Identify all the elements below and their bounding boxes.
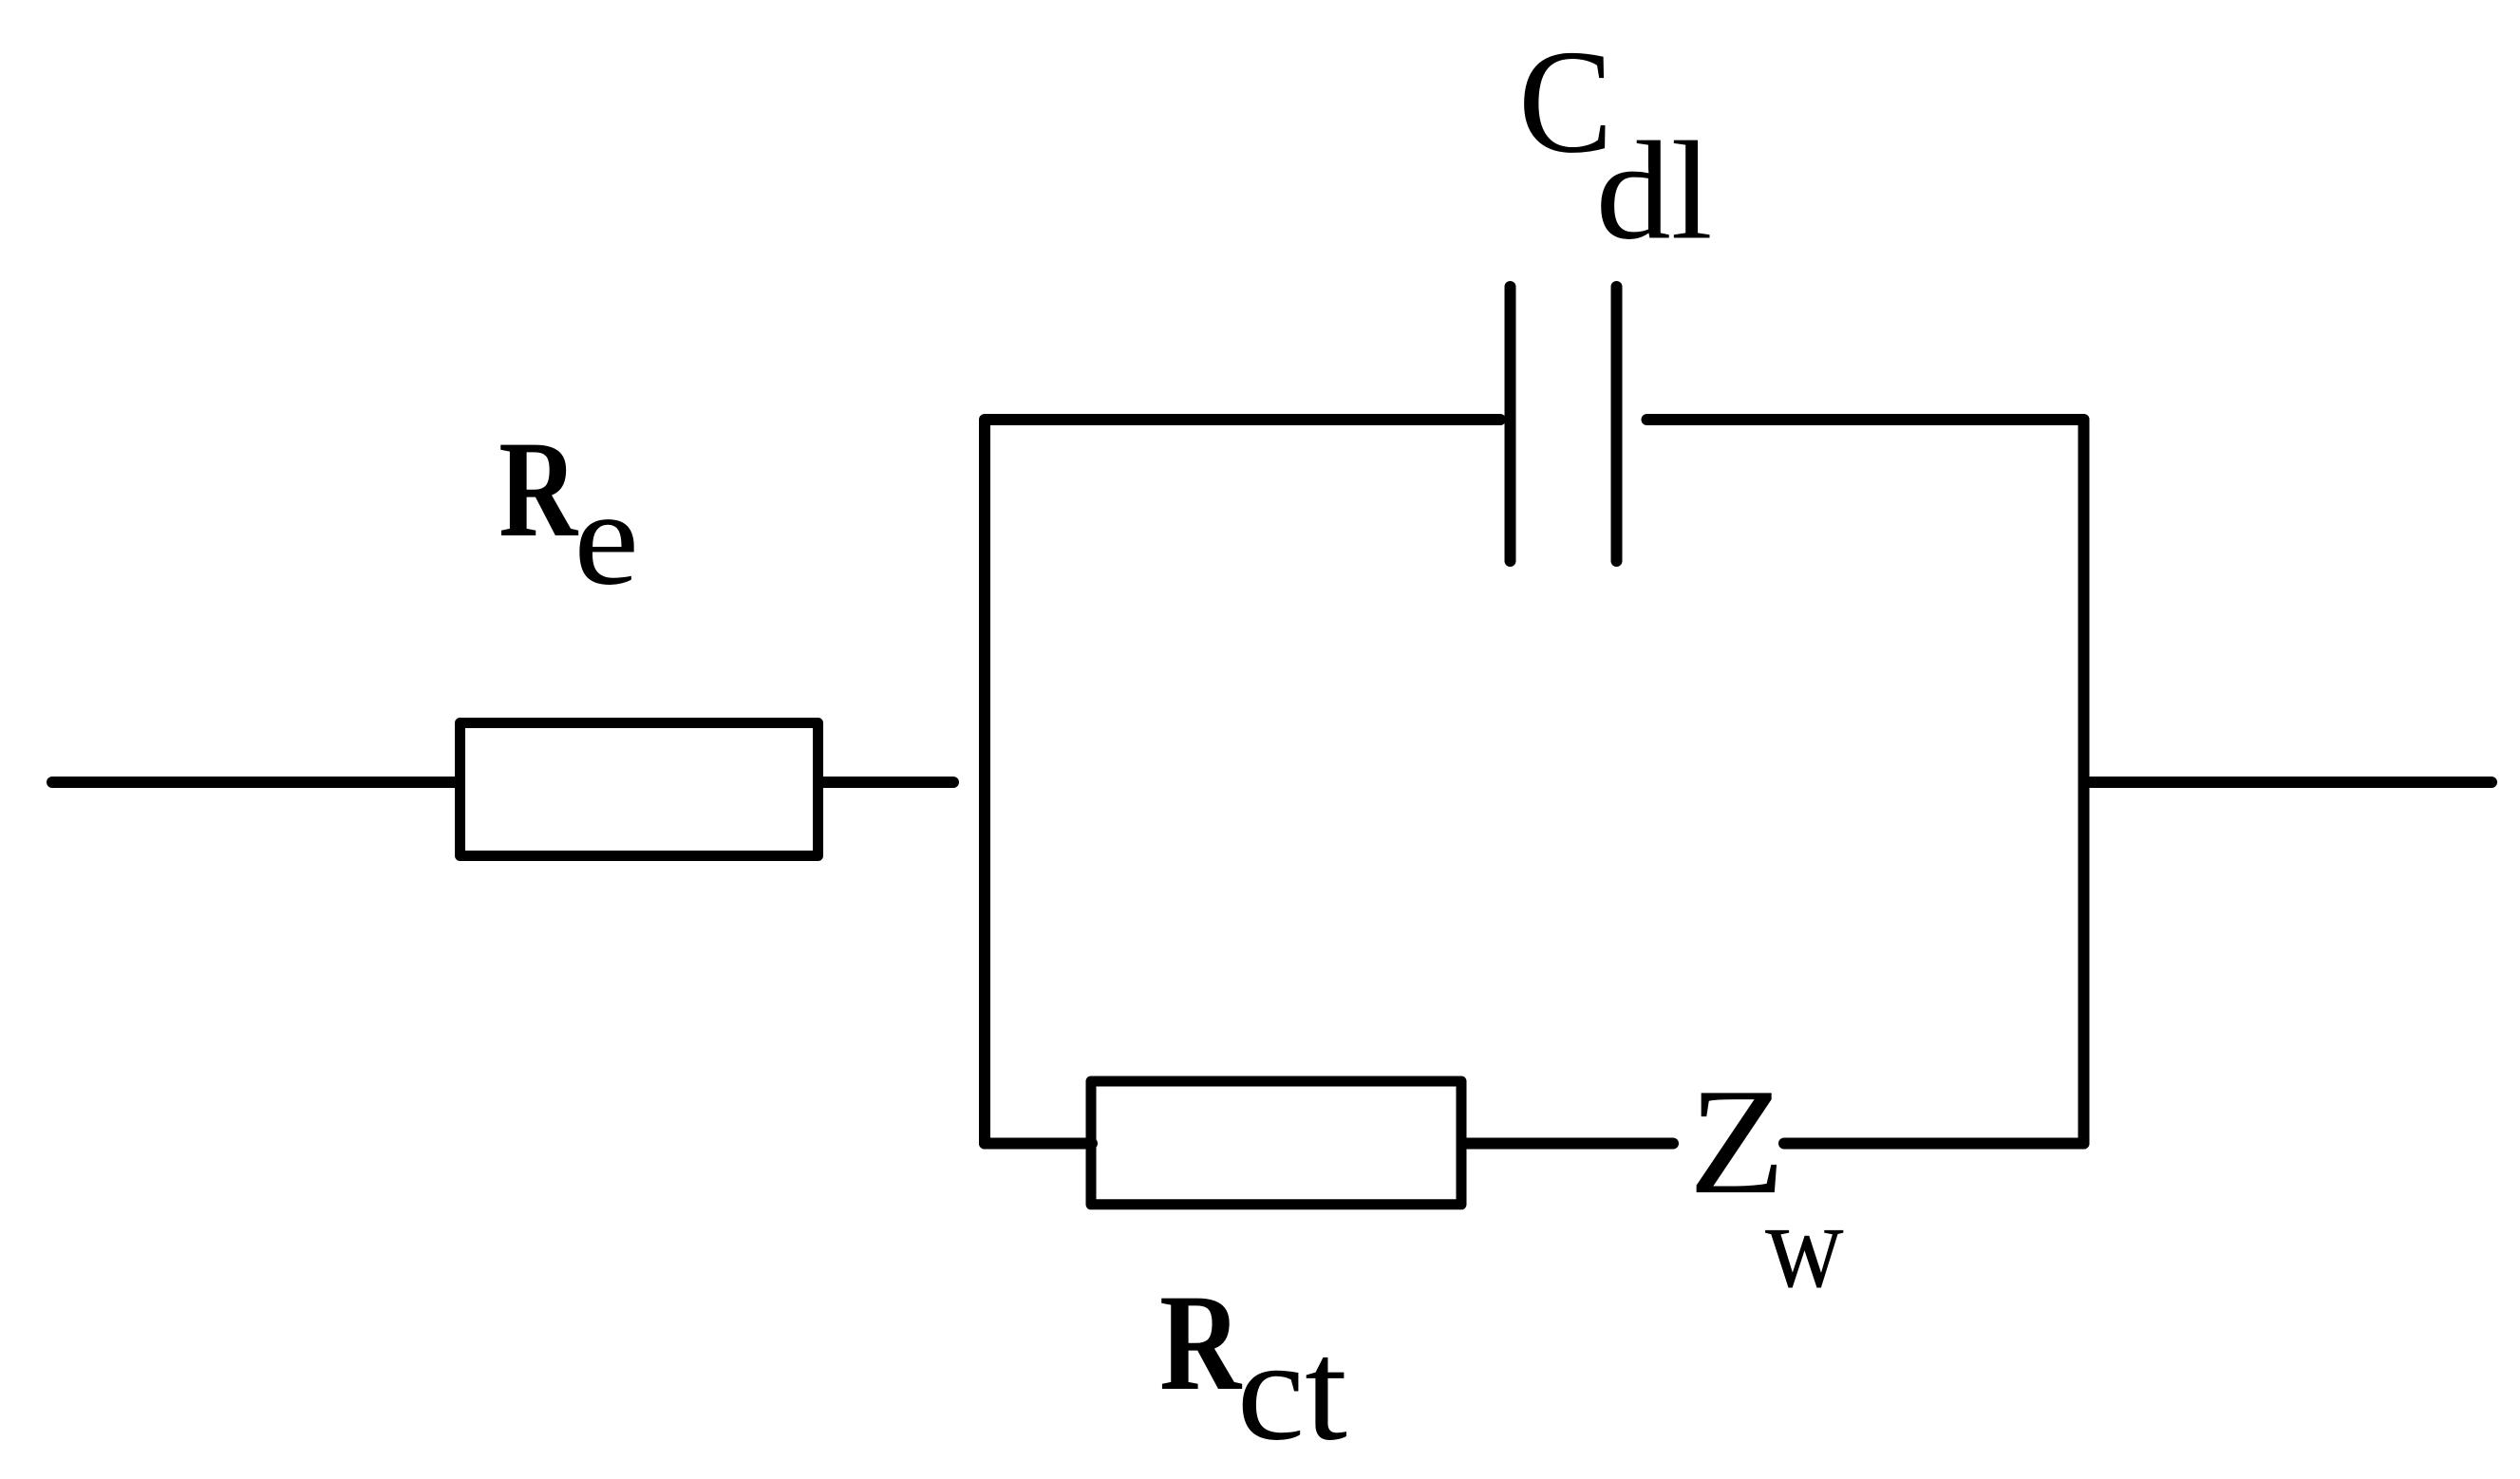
label Re: subscript e bbox=[574, 463, 639, 613]
wire: left input lead bbox=[52, 777, 456, 788]
wire: top branch from capacitor to right riser bbox=[1647, 414, 2084, 425]
svg-text:R: R bbox=[1159, 1265, 1243, 1419]
wire: Re to parallel-network node bbox=[822, 777, 953, 788]
wire: bottom branch from Rct to Warburg element bbox=[1466, 1138, 1673, 1150]
Warburg impedance Zw: Z bbox=[1689, 1058, 1785, 1226]
wire: left branch riser (top corner to bottom corner) bbox=[985, 420, 1500, 1144]
wire: bottom branch left segment bbox=[985, 1138, 1092, 1150]
svg-text:e: e bbox=[574, 463, 639, 613]
wire: right branch riser bbox=[2078, 420, 2090, 1144]
label Rct: R bbox=[1159, 1265, 1243, 1419]
wire: bottom branch from Warburg element to right riser bbox=[1784, 1138, 2084, 1150]
Warburg impedance Zw: subscript w bbox=[1765, 1178, 1844, 1314]
capacitor Cdl: left plate bbox=[1505, 287, 1516, 561]
label Re: R bbox=[498, 413, 578, 566]
label Rct: subscript ct bbox=[1237, 1310, 1347, 1470]
resistor Rct (body) bbox=[1091, 1081, 1461, 1205]
svg-text:R: R bbox=[498, 413, 578, 566]
label Cdl: C bbox=[1518, 20, 1613, 184]
svg-text:dl: dl bbox=[1596, 113, 1713, 269]
svg-text:w: w bbox=[1765, 1178, 1844, 1314]
label Cdl: subscript dl bbox=[1596, 113, 1713, 269]
capacitor Cdl: right plate bbox=[1611, 287, 1623, 561]
wire: right output lead bbox=[2084, 777, 2492, 788]
svg-text:ct: ct bbox=[1237, 1310, 1347, 1470]
resistor Re (body) bbox=[461, 723, 818, 856]
